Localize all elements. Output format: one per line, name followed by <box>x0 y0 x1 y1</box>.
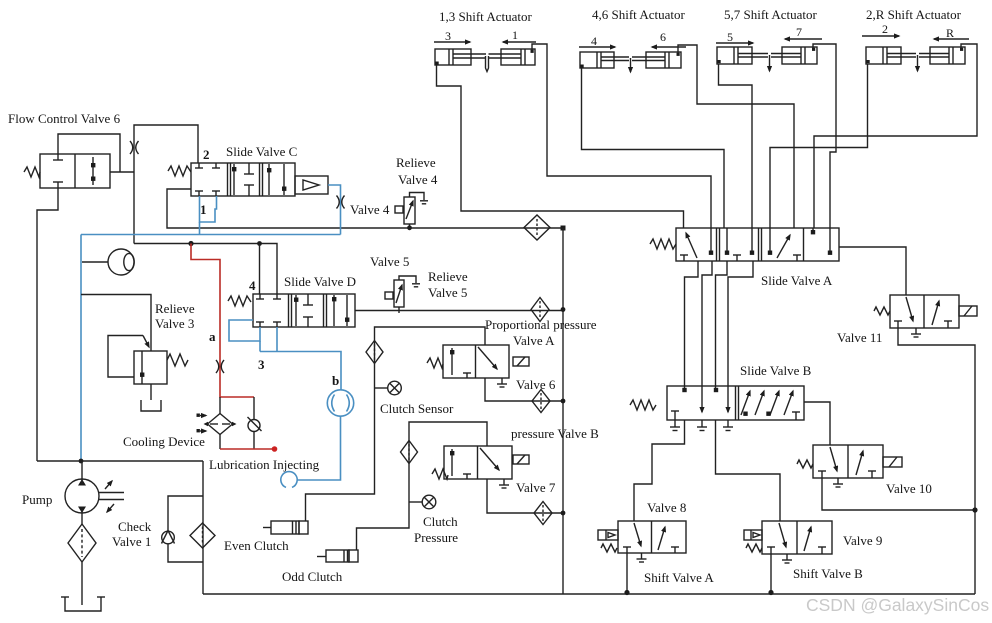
svg-text:Valve 7: Valve 7 <box>516 480 556 495</box>
node: junction dot Valve 8 at bottom rail <box>624 590 629 595</box>
wire: 2,R left cylinder to Slide Valve A port 5 <box>770 64 868 228</box>
filter diamond (valve B drain) <box>534 502 552 525</box>
Slide Valve B right cell diagonals <box>741 391 800 420</box>
spring (V11) <box>874 307 890 315</box>
svg-text:Odd Clutch: Odd Clutch <box>282 569 343 584</box>
cylinder 3 (1,3 actuator left) <box>435 49 486 65</box>
node: junction dot RV4 on pressure rail <box>407 225 412 230</box>
cylinder 2 (2,R actuator left) <box>866 47 916 64</box>
pump drive shaft <box>99 481 124 512</box>
svg-text:a: a <box>209 329 216 344</box>
wire: Valve 11 bottom port to right trunk <box>898 328 975 594</box>
valve U-B (pressure Valve B) body <box>444 446 512 479</box>
svg-text:Relieve: Relieve <box>155 301 195 316</box>
svg-text:CSDN @GalaxySinCos: CSDN @GalaxySinCos <box>806 595 989 615</box>
RV3 pilot loop and arrow <box>108 336 149 378</box>
cylinder 1 (1,3 actuator right) <box>489 49 536 65</box>
filter diamond (odd clutch line) <box>401 441 418 464</box>
wire: suction pipe to tank <box>81 562 83 605</box>
Slide Valve D middle cell internals <box>294 294 313 327</box>
valve V10 drain tank <box>833 478 843 487</box>
restrictor (on FCV6 output riser) <box>130 141 139 154</box>
filter diamond (pump suction) <box>68 524 96 562</box>
valve B drain tank below <box>499 479 509 488</box>
svg-text:Valve A: Valve A <box>513 333 555 348</box>
wire: blue line down from ball to nozzle <box>297 416 341 480</box>
detent arrow (2,R actuator) <box>917 55 919 71</box>
wire: 4,6 right cylinder to Slide Valve A cell-3 arrow port <box>678 45 794 228</box>
svg-text:Relieve: Relieve <box>428 269 468 284</box>
node: blue-black junction dot at pump line <box>79 459 84 464</box>
wire: blue bus line <box>81 234 341 236</box>
spring (RV3) <box>167 354 188 366</box>
svg-text:Slide Valve C: Slide Valve C <box>226 144 297 159</box>
spring (V9) <box>746 544 762 552</box>
valve V11 drain tank <box>911 328 921 337</box>
filter diamond (even clutch line) <box>366 341 383 364</box>
svg-text:Relieve: Relieve <box>396 155 436 170</box>
wire: valve B drain to trunk <box>487 479 563 513</box>
Clutch Pressure labels <box>414 514 458 545</box>
sensor Clutch Sensor <box>388 381 402 395</box>
svg-text:Valve 1: Valve 1 <box>112 534 151 549</box>
Slide Valve A internal port lines and dots <box>709 228 832 261</box>
relief valve RV5 <box>385 276 420 313</box>
svg-text:Slide Valve A: Slide Valve A <box>761 273 833 288</box>
svg-text:5: 5 <box>727 30 733 44</box>
wire: Valve 9 to bottom rail <box>770 554 772 593</box>
svg-text:Even Clutch: Even Clutch <box>224 538 289 553</box>
svg-text:Check: Check <box>118 519 152 534</box>
Slide Valve B left cell internals <box>671 386 728 420</box>
wire: Slide Valve B through-line to Valve 8 <box>634 420 685 521</box>
spring (Slide Valve A) <box>650 239 676 249</box>
wire: blue pilot loop at Slide Valve D port 3 <box>229 320 260 341</box>
Check Valve 1 labels <box>112 519 152 549</box>
pump P1 <box>65 461 99 524</box>
svg-text:7: 7 <box>796 25 802 39</box>
wire: red lubrication outlet <box>220 448 274 450</box>
wire: Slide Valve A to Slide Valve B line 4 <box>728 261 753 386</box>
svg-text:Cooling Device: Cooling Device <box>123 434 205 449</box>
wire: Slide Valve D output to trunk <box>355 310 563 312</box>
arrow R (2,R actuator) <box>934 26 969 40</box>
valve V10 body <box>813 445 883 478</box>
valve V8 body <box>618 521 686 553</box>
wire: Slide Valve A to Slide Valve B line 1 <box>685 261 699 390</box>
svg-text:Clutch Sensor: Clutch Sensor <box>380 401 454 416</box>
solenoid (V9) <box>744 530 762 540</box>
FCV6 orifice cell <box>91 157 95 185</box>
FCV6 left cell ports <box>53 154 63 188</box>
valve Slide Valve D body <box>253 294 355 327</box>
detent fork (1,3 actuator) <box>486 56 489 72</box>
solenoid (valve B) <box>513 455 529 464</box>
svg-text:Valve 8: Valve 8 <box>647 500 686 515</box>
arrow 6 (4,6 actuator) <box>652 30 686 47</box>
valve V11 body <box>890 295 959 328</box>
valve Slide Valve C body <box>191 163 295 196</box>
Slide Valve C right cell internals <box>267 164 286 195</box>
wire: blue from Slide Valve C port 1 to blue bus <box>199 222 201 235</box>
wire: Valve 10 bottom port to right trunk junction <box>822 478 975 510</box>
Relieve Valve 5 labels <box>428 269 468 300</box>
wire: 1,3 right cylinder to Slide Valve A port 2 <box>532 44 711 228</box>
spring (FCV6) <box>24 167 40 177</box>
gauge (pressure indicator) <box>82 249 134 275</box>
valve FCV6 body <box>40 154 110 188</box>
tank (pump suction) <box>61 597 105 611</box>
node: red outlet dot <box>272 446 278 452</box>
filter diamond (valve A drain) <box>532 390 550 413</box>
lubrication nozzle circle <box>281 472 297 488</box>
cylinder 5 (5,7 actuator left) <box>717 47 768 64</box>
wire: Slide Valve B through-line to Valve 9 <box>716 420 781 521</box>
arrow 1 (1,3 actuator) <box>503 28 536 42</box>
svg-text:Valve 9: Valve 9 <box>843 533 882 548</box>
svg-text:Proportional pressure: Proportional pressure <box>485 317 597 332</box>
wire: blue drop to pump junction <box>80 235 82 462</box>
filter diamond (Slide Valve D output) <box>531 298 549 322</box>
valve V11 internals <box>894 297 952 328</box>
solenoid (V8) <box>598 530 618 540</box>
wire: valve A drain to trunk <box>485 378 563 401</box>
lube ball symbol <box>327 390 353 416</box>
svg-text:4,6 Shift Actuator: 4,6 Shift Actuator <box>592 7 685 22</box>
wire: Slide Valve B output to Valve 10 <box>804 402 830 445</box>
pilot box with triangle (Slide Valve C) <box>295 176 328 194</box>
arrow 7 (5,7 actuator) <box>785 25 822 39</box>
spring (valve A) <box>427 358 443 368</box>
sensor Clutch Pressure <box>422 495 436 509</box>
Relieve Valve 3 labels <box>155 301 195 331</box>
wire: FCV6 pilot loop <box>58 134 120 172</box>
svg-text:pressure Valve B: pressure Valve B <box>511 426 599 441</box>
valve V10 internals <box>818 447 876 478</box>
svg-text:Valve 10: Valve 10 <box>886 481 932 496</box>
svg-text:3: 3 <box>258 357 265 372</box>
node: junction dot Valve 9 at bottom rail <box>768 590 773 595</box>
arrow 4 (4,6 actuator) <box>579 34 615 48</box>
cylinder 7 (5,7 actuator right) <box>771 47 817 64</box>
cooler inlet arrows <box>197 414 207 433</box>
valve A internals <box>450 347 497 378</box>
svg-text:3: 3 <box>445 29 451 43</box>
filter diamond (clutch feed) <box>190 523 215 548</box>
svg-text:Lubrication Injecting: Lubrication Injecting <box>209 457 320 472</box>
svg-text:Clutch: Clutch <box>423 514 458 529</box>
svg-text:R: R <box>946 26 954 40</box>
wire: drop to Slide Valve D first port <box>259 244 261 295</box>
node: junction dot red feed <box>188 241 193 246</box>
valve Slide Valve A body <box>676 228 839 261</box>
svg-text:Valve 11: Valve 11 <box>837 330 882 345</box>
svg-text:Valve 5: Valve 5 <box>370 254 409 269</box>
Proportional pressure Valve A labels <box>485 317 597 348</box>
wire: blue lube line b from Slide Valve D port to ball <box>260 327 341 390</box>
svg-text:2: 2 <box>203 147 210 162</box>
valve V9 body <box>762 521 832 554</box>
valve A drain tank below <box>497 378 507 387</box>
wire: Slide Valve A to Slide Valve B line 3 <box>716 261 728 390</box>
cylinder 4 (4,6 actuator left) <box>580 52 629 68</box>
svg-text:Valve 6: Valve 6 <box>516 377 556 392</box>
wire: restrictor riser to Slide Valve C port 2 <box>134 125 198 244</box>
svg-text:Slide Valve D: Slide Valve D <box>284 274 356 289</box>
Relieve Valve 4 labels <box>396 155 438 187</box>
wire: Valve 8 to bottom rail <box>626 553 628 593</box>
wire: clutch sensor stub <box>375 387 388 389</box>
relief valve RV3 body <box>134 351 167 384</box>
node: junction dot Slide Valve D port 3 riser <box>257 241 262 246</box>
node: junction dot valve A drain at trunk <box>561 399 566 404</box>
wire: 2,R right cylinder to Slide Valve A port 6 <box>814 44 977 228</box>
wire: odd clutch feed line (valve B riser) <box>357 422 488 550</box>
svg-text:b: b <box>332 373 339 388</box>
wire: FCV6 output to restrictor line <box>110 171 134 173</box>
svg-text:Pump: Pump <box>22 492 52 507</box>
wire: blue U-link Slide Valve C ports 1-2 <box>200 196 217 222</box>
svg-text:Shift Valve B: Shift Valve B <box>793 566 863 581</box>
svg-text:2,R Shift Actuator: 2,R Shift Actuator <box>866 7 962 22</box>
wire: left trunk down to bottom rail <box>202 461 204 594</box>
cylinder Even Clutch <box>263 521 308 534</box>
spring (Slide Valve B) <box>630 400 656 410</box>
wire: 5,7 left cylinder to Slide Valve A port 4 <box>719 64 753 228</box>
svg-text:Pressure: Pressure <box>414 530 458 545</box>
spring (Slide Valve D) <box>228 296 251 306</box>
svg-text:5,7 Shift Actuator: 5,7 Shift Actuator <box>724 7 817 22</box>
detent arrow (5,7 actuator) <box>769 55 771 71</box>
node: junction dot valve B drain at trunk <box>561 511 566 516</box>
restrictor (red line a) <box>216 360 224 373</box>
tank symbols below Slide Valve B <box>670 420 733 431</box>
check valve (cooler bypass) <box>248 397 262 449</box>
cylinder R (2,R actuator right) <box>919 47 965 64</box>
svg-text:2: 2 <box>882 22 888 36</box>
spring (valve B) <box>432 469 448 479</box>
svg-text:Shift Valve A: Shift Valve A <box>644 570 714 585</box>
Slide Valve A cell1 arrow and port <box>680 233 697 261</box>
arrow 5 (5,7 actuator) <box>716 30 753 44</box>
Slide Valve D right cell internals <box>332 295 349 326</box>
filter diamond (pressure rail y228) <box>524 215 550 240</box>
arrow 3 (1,3 actuator) <box>434 29 470 43</box>
restrictor Valve 4 (on blue pilot line) <box>337 196 345 209</box>
node: rail junction square at trunk top <box>561 226 566 231</box>
svg-text:4: 4 <box>249 278 256 293</box>
wire: Slide Valve C left port loop to main pressure rail <box>167 189 561 228</box>
svg-text:Valve 4: Valve 4 <box>398 172 438 187</box>
cooler diamond <box>204 397 237 449</box>
wire: 5,7 right cylinder to Slide Valve A port 7 (jogged) <box>813 44 836 228</box>
svg-text:Flow Control Valve 6: Flow Control Valve 6 <box>8 111 121 126</box>
cylinder Odd Clutch <box>317 550 358 562</box>
valve U-A (proportional pressure Valve A) body <box>443 345 509 378</box>
svg-text:Slide Valve B: Slide Valve B <box>740 363 812 378</box>
wire: rail line y243 from riser to Slide Valve D port 4 <box>134 244 277 295</box>
valve V9 internals <box>767 523 826 554</box>
wire: Slide Valve A to Slide Valve B line 2 <box>702 261 712 386</box>
relief valve RV4 <box>395 193 428 229</box>
svg-text:4: 4 <box>591 34 597 48</box>
svg-text:6: 6 <box>660 30 666 44</box>
spring (V8) <box>601 544 617 552</box>
svg-text:1: 1 <box>200 202 207 217</box>
valve B internals <box>450 448 499 479</box>
valve V8 internals <box>623 523 679 553</box>
wire: bottom return rail <box>203 593 975 595</box>
wire: 4,6 left cylinder to Slide Valve A port 3 <box>582 68 725 228</box>
svg-text:Valve 4: Valve 4 <box>350 202 390 217</box>
valve V8 drain tank <box>637 553 647 562</box>
solenoid (V11) <box>959 306 977 316</box>
RV3 drain to tank <box>141 384 161 411</box>
cylinder 6 (4,6 actuator right) <box>632 52 681 68</box>
Slide Valve C left cell ports <box>195 163 220 196</box>
Slide Valve D left cell ports <box>256 294 281 327</box>
wire: even clutch feed line (valve A riser) <box>306 327 486 521</box>
spring (V10) <box>797 460 813 468</box>
wire: Slide Valve A output to Valve 11 <box>839 247 906 295</box>
detent arrow (4,6 actuator) <box>630 58 632 72</box>
valve Slide Valve B body <box>667 386 804 420</box>
wire: red feed from rail to cooling device <box>191 244 254 398</box>
svg-text:1: 1 <box>512 28 518 42</box>
wire: blue stub joining loop to lube line <box>259 341 261 352</box>
check valve CV1 bypass loop <box>162 496 204 562</box>
node: junction dot right trunk <box>972 507 977 512</box>
Slide Valve C middle cell internals <box>232 163 254 196</box>
svg-text:Valve 3: Valve 3 <box>155 316 194 331</box>
wire: relief valve 3 feed from blue drop line <box>81 295 151 352</box>
wire: FCV6 bottom port down the left side to pump line <box>37 188 58 461</box>
node: junction dot D-output at trunk <box>561 307 566 312</box>
valve V9 drain tank <box>782 554 792 563</box>
wire: clutch pressure sensor stub <box>409 501 422 503</box>
pressure Valve B labels <box>511 426 599 441</box>
arrow 2 (2,R actuator) <box>862 22 899 36</box>
wire: main vertical trunk <box>562 228 564 594</box>
wire: 1,3 left cylinder to Slide Valve A port 1 arrow <box>437 65 684 228</box>
wire: pump top line (left rail to trunk corner) <box>37 460 203 462</box>
svg-text:1,3 Shift Actuator: 1,3 Shift Actuator <box>439 9 532 24</box>
spring (Slide Valve C) <box>168 166 191 176</box>
svg-text:Valve 5: Valve 5 <box>428 285 467 300</box>
wire: blue pilot line from Slide Valve C actuator <box>328 185 341 235</box>
solenoid (valve A) <box>513 357 529 366</box>
solenoid (V10) <box>883 457 902 467</box>
